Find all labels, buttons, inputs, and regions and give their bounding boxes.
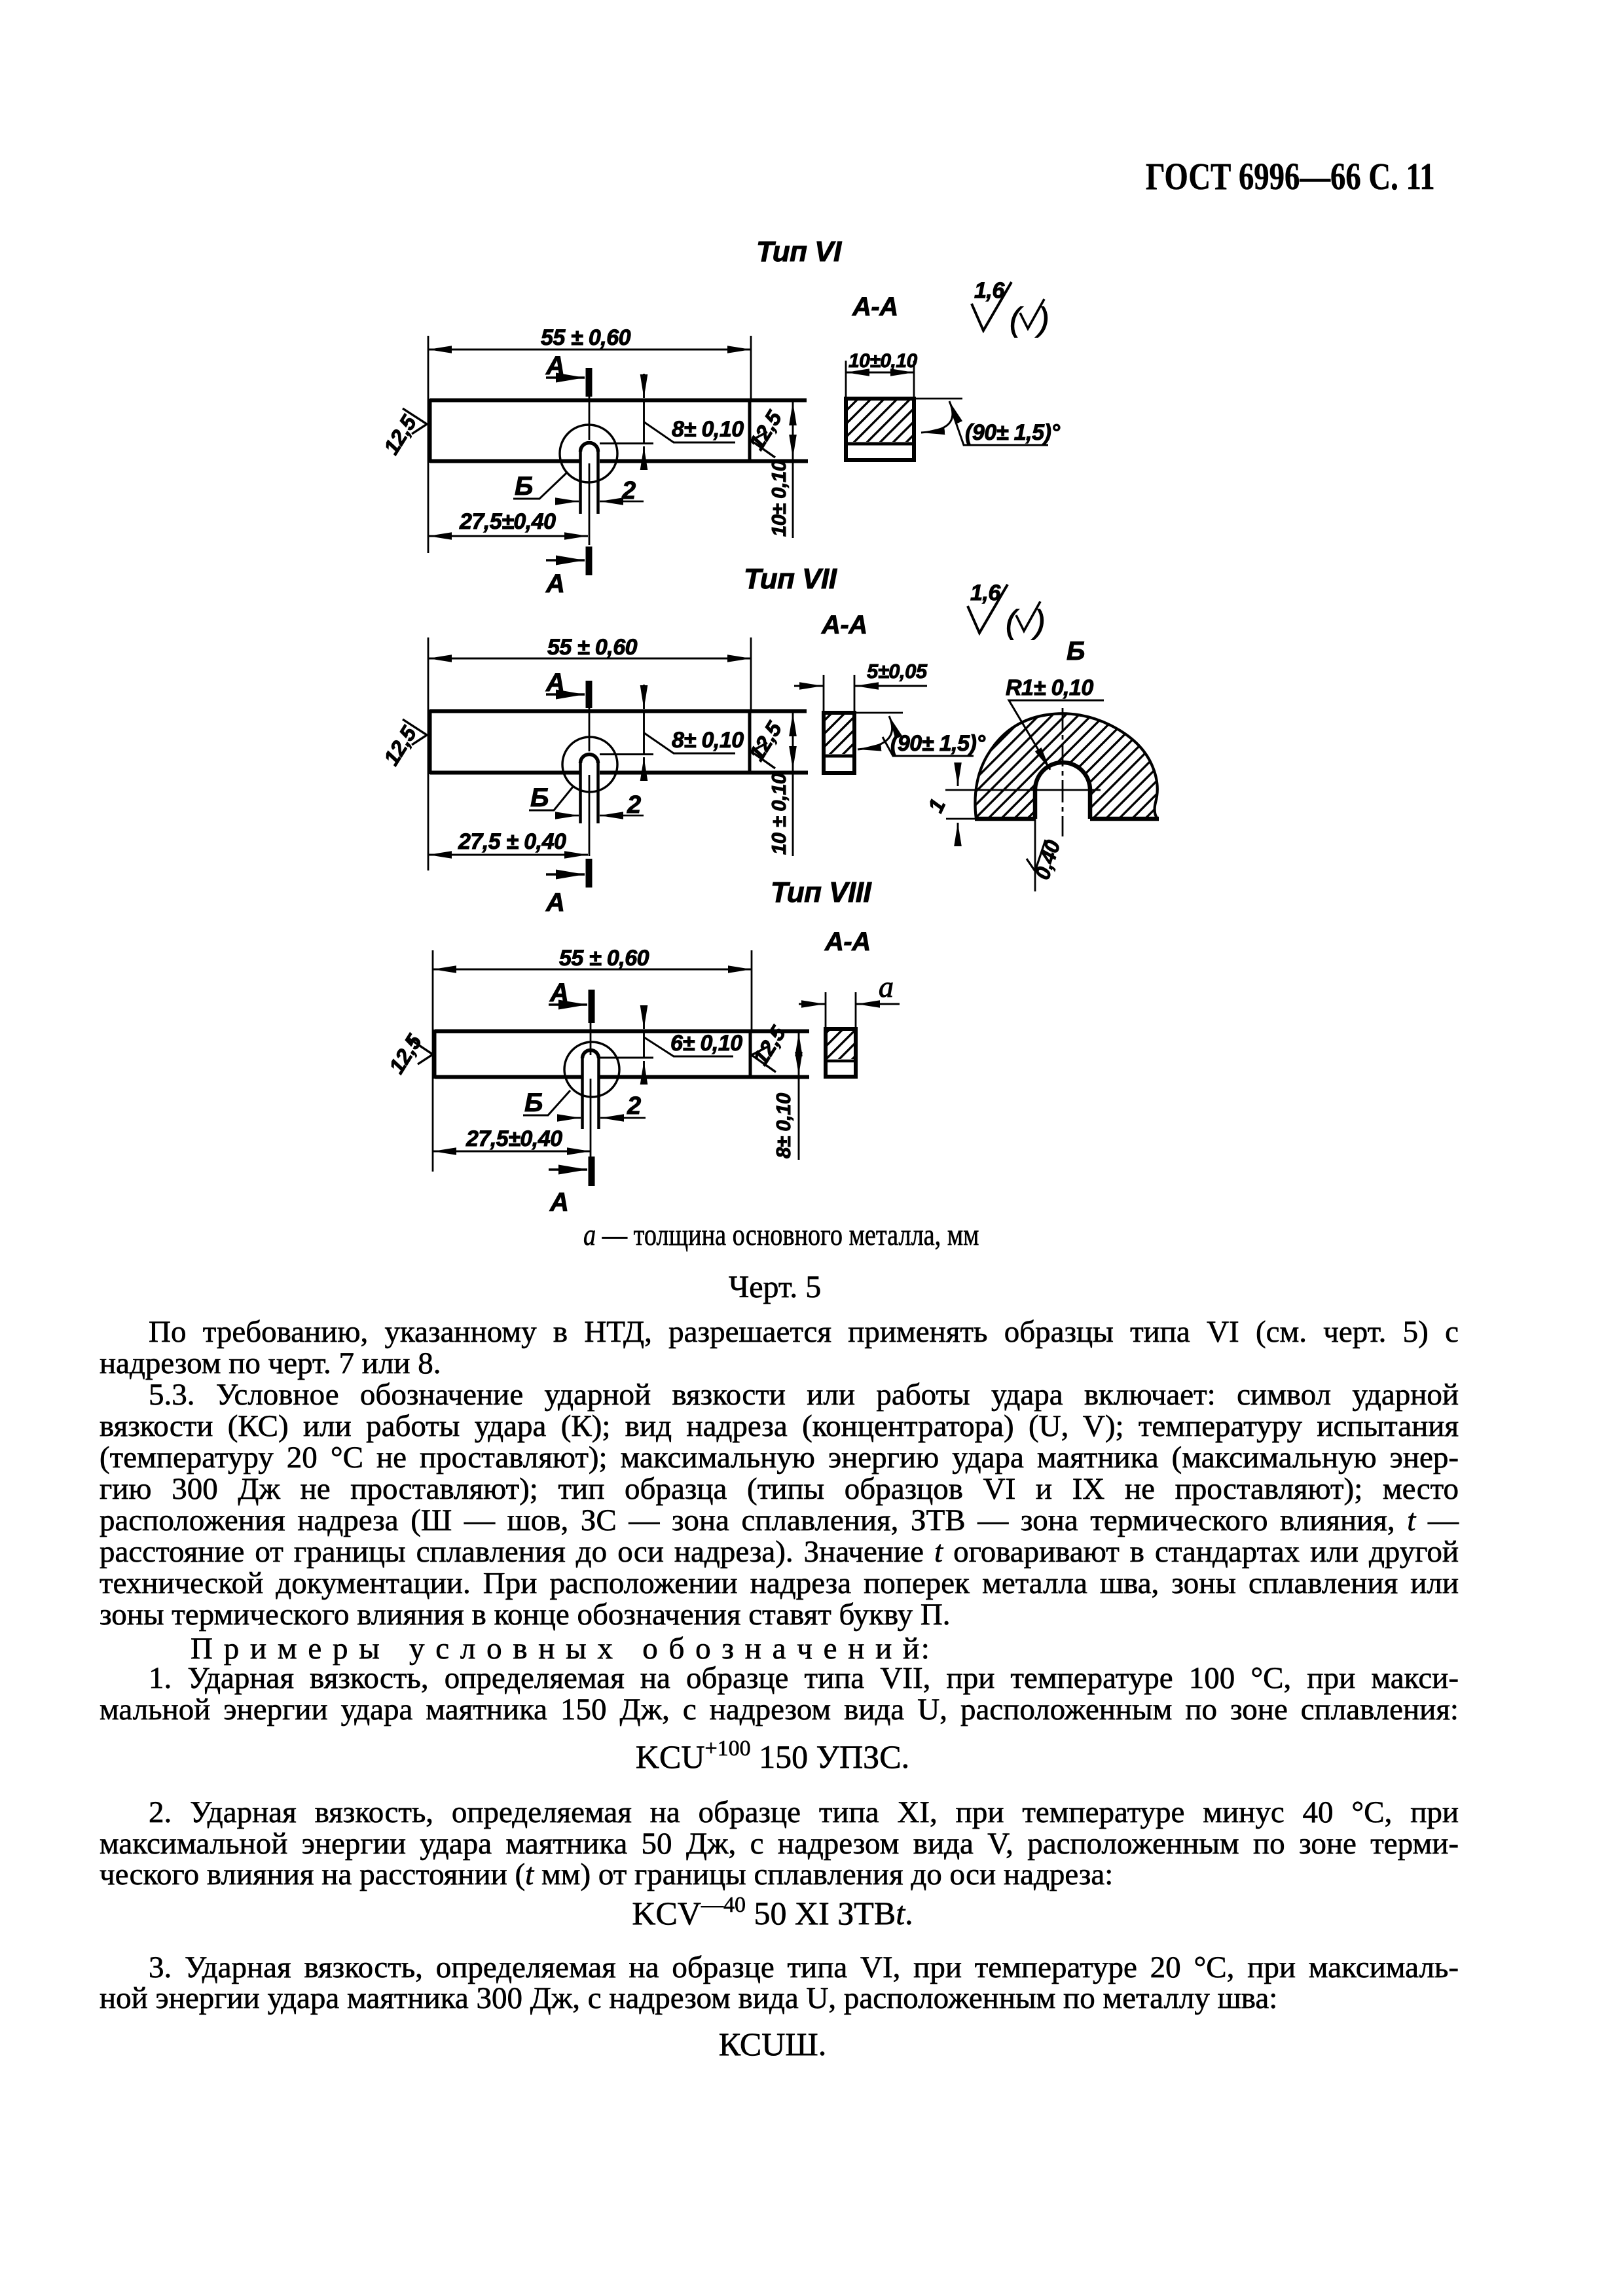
- angle annotation (90±1,5)° (VII): [854, 713, 985, 756]
- detail Б shoulder line: [945, 789, 1101, 791]
- roughness symbol 1,6 with check (VI): [972, 278, 1049, 338]
- label Б with leader (VII): [529, 783, 574, 812]
- specimen bar (Type VI): [430, 399, 808, 463]
- cross-section A-A rectangle (VIII): [826, 1029, 856, 1077]
- svg-text:Б: Б: [524, 1088, 543, 1117]
- svg-text:8± 0,10: 8± 0,10: [672, 728, 744, 753]
- svg-text:10±0,10: 10±0,10: [848, 350, 918, 372]
- notch detail circle Б (VII): [562, 737, 617, 792]
- section arrow A (bottom, VII): [545, 859, 589, 917]
- dimension 2 (slot width, VIII): [557, 1092, 646, 1120]
- svg-text:8± 0,10: 8± 0,10: [672, 417, 744, 442]
- surface roughness 12,5 (right edge, VI): [744, 406, 787, 457]
- left extension line (VII): [428, 637, 429, 870]
- dimension a above section (VIII): [799, 970, 900, 1027]
- body text: [100, 1317, 1459, 1348]
- svg-text:Тип VIII: Тип VIII: [771, 876, 871, 908]
- dimension 6±0,10 (VIII): [600, 1008, 742, 1081]
- dimension 10±0,10 (right, VI): [767, 402, 793, 538]
- view title: Тип VII: [744, 563, 837, 595]
- detail Б bottom edge left extension: [946, 818, 979, 820]
- left extension line: [428, 336, 429, 553]
- dimension 27,5±0,40 (VII): [428, 829, 588, 855]
- svg-text:55 ± 0,60: 55 ± 0,60: [541, 325, 631, 350]
- svg-text:2: 2: [621, 477, 636, 505]
- figure caption: a = thickness note: [583, 1220, 979, 1251]
- dimension 55±0,60 (VI): [428, 325, 751, 399]
- svg-text:А-А: А-А: [852, 293, 898, 321]
- section arrow A (top, VI): [545, 351, 589, 397]
- detail Б left wall extension: [1034, 819, 1036, 891]
- specimen bar (Type VII): [430, 709, 808, 774]
- surface roughness 12,5 (right edge, VIII): [748, 1021, 791, 1072]
- svg-text:5±0,05: 5±0,05: [867, 660, 928, 683]
- svg-text:2: 2: [627, 1092, 641, 1120]
- svg-text:А: А: [545, 569, 564, 598]
- page header: [1146, 154, 1435, 198]
- svg-text:Б: Б: [530, 783, 549, 812]
- section label А-А (VIII): [824, 927, 871, 956]
- dimension 8±0,10 (VII): [600, 685, 744, 778]
- svg-text:А: А: [545, 351, 564, 380]
- svg-text:6± 0,10: 6± 0,10: [670, 1031, 742, 1056]
- svg-text:(: (: [1006, 603, 1019, 640]
- dimension 2 (slot width, VI): [555, 477, 644, 505]
- dimension 55±0,60 (VII): [428, 635, 751, 709]
- svg-text:А-А: А-А: [824, 927, 871, 956]
- section cut centerline (VII): [589, 708, 591, 856]
- section label А-А (VII): [821, 611, 867, 639]
- dimension 55±0,60 (VIII): [433, 946, 752, 1030]
- notch detail circle Б (VI): [560, 425, 617, 482]
- dimension 27,5±0,40 (VI): [428, 509, 588, 536]
- svg-text:А: А: [549, 978, 568, 1007]
- U-notch slot (VI): [581, 443, 598, 514]
- section label А-А (VI): [852, 293, 898, 321]
- svg-text:А: А: [545, 668, 564, 697]
- detail Б hatching: [975, 713, 1158, 819]
- surface roughness 12,5 (right edge, VII): [744, 717, 787, 768]
- svg-text:(: (: [1010, 301, 1023, 338]
- surface roughness 12,5 (left edge, VIII): [384, 1030, 433, 1077]
- section arrow A (bottom, VI): [545, 547, 589, 598]
- view title: Тип VI: [756, 236, 842, 268]
- svg-text:(90± 1,5)°: (90± 1,5)°: [965, 420, 1060, 445]
- dimension 8±0,10 (right, VIII): [772, 1033, 799, 1160]
- detail Б U-notch: [1035, 762, 1090, 819]
- svg-text:12,5: 12,5: [379, 410, 422, 458]
- svg-text:a: a: [879, 970, 894, 1003]
- dimension 27,5±0,40 (VIII): [433, 1126, 591, 1151]
- svg-text:12,5: 12,5: [384, 1030, 427, 1077]
- svg-text:55 ± 0,60: 55 ± 0,60: [547, 635, 638, 660]
- svg-text:27,5 ± 0,40: 27,5 ± 0,40: [458, 829, 566, 854]
- svg-text:Б: Б: [1067, 637, 1085, 666]
- detail Б label (above detail): [1067, 637, 1085, 666]
- svg-text:(90± 1,5)°: (90± 1,5)°: [890, 731, 985, 756]
- detail Б bottom edge: [975, 817, 1159, 821]
- svg-text:А: А: [549, 1188, 568, 1217]
- section arrow A (bottom, VIII): [549, 1157, 592, 1217]
- specimen bar (Type VIII): [435, 1030, 809, 1079]
- svg-text:): ): [1031, 603, 1045, 640]
- U-notch slot (VII): [581, 755, 598, 824]
- svg-text:8± 0,10: 8± 0,10: [772, 1093, 795, 1158]
- svg-text:12,5: 12,5: [748, 1021, 791, 1069]
- svg-text:А: А: [545, 888, 564, 917]
- svg-text:10 ± 0,10: 10 ± 0,10: [767, 773, 790, 855]
- dimension 10±0,10 above section (VI): [846, 350, 918, 397]
- cross-section A-A rectangle (VII): [824, 713, 854, 773]
- dimension 10±0,10 (right, VII): [767, 713, 793, 856]
- svg-text:): ): [1035, 301, 1049, 338]
- dimension 5±0,05 above section (VII): [794, 660, 928, 711]
- surface roughness 12,5 (left edge, VII): [379, 719, 427, 770]
- label Б with leader (VIII): [523, 1088, 570, 1117]
- label Б with leader (VI): [513, 472, 568, 501]
- svg-text:R1± 0,10: R1± 0,10: [1006, 675, 1093, 700]
- svg-text:Б: Б: [515, 472, 533, 501]
- svg-text:27,5±0,40: 27,5±0,40: [465, 1126, 562, 1151]
- section cut centerline (VI): [589, 397, 591, 545]
- figure caption: Черт. 5: [729, 1272, 821, 1302]
- U-notch slot (VIII): [583, 1050, 599, 1130]
- cross-section A-A rectangle (VI): [846, 399, 914, 460]
- dimension 1 (detail Б): [923, 764, 958, 844]
- detail Б blob outline: [975, 713, 1158, 819]
- section cut centerline (VIII): [590, 1023, 592, 1157]
- view title: Тип VIII: [771, 876, 871, 908]
- svg-text:55 ± 0,60: 55 ± 0,60: [559, 946, 649, 971]
- svg-text:А-А: А-А: [821, 611, 867, 639]
- dimension 8±0,10 (VI): [600, 374, 744, 467]
- svg-text:2: 2: [627, 791, 641, 819]
- svg-text:12,5: 12,5: [379, 721, 422, 769]
- angle annotation (90±1,5)° (VI): [914, 399, 1060, 445]
- svg-text:Тип VI: Тип VI: [756, 236, 842, 268]
- left extension line (VIII): [432, 950, 434, 1172]
- svg-text:10± 0,10: 10± 0,10: [767, 460, 790, 537]
- dimension 2 (slot width, VII): [555, 791, 644, 819]
- notch detail circle Б (VIII): [564, 1042, 619, 1097]
- svg-text:Тип VII: Тип VII: [744, 563, 837, 595]
- dimension R1±0,10 (detail Б): [1006, 675, 1104, 770]
- detail Б centerline: [1062, 708, 1064, 836]
- roughness 0,40 (detail Б notch): [1027, 837, 1065, 882]
- svg-text:27,5±0,40: 27,5±0,40: [459, 509, 556, 534]
- svg-text:1: 1: [923, 795, 950, 816]
- surface roughness 12,5 (left edge, VI): [379, 408, 427, 459]
- roughness symbol 1,6 with check (VII): [968, 581, 1045, 640]
- section arrow A (top, VII): [545, 668, 589, 708]
- section arrow A (top, VIII): [549, 978, 592, 1023]
